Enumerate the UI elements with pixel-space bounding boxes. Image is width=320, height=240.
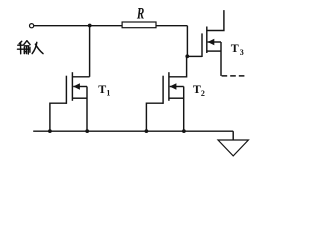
- transistor T2 gate lead: [146, 103, 163, 131]
- transistor T2 source down wire: [183, 87, 185, 132]
- transistor T3 drain lead: [207, 10, 224, 30]
- ground lead down: [232, 131, 234, 140]
- wire gate node to T3 gate: [187, 55, 202, 57]
- transistor T1 source lead: [72, 97, 87, 99]
- node dot T1 gate at rail: [48, 129, 52, 133]
- svg-text:1: 1: [106, 88, 110, 97]
- transistor T2 source lead: [169, 97, 184, 99]
- wire junction down to T1 drain: [89, 26, 91, 77]
- transistor T3 source lead: [207, 50, 221, 52]
- wire resistor to right corner: [156, 25, 187, 27]
- node dot T1 source at rail: [85, 129, 89, 133]
- transistor T3 gate bar: [201, 33, 203, 57]
- transistor T2 gate bar: [162, 76, 164, 104]
- resistor R body: [122, 22, 156, 28]
- node dot T2 source at rail: [182, 129, 186, 133]
- transistor T1 substrate arrow: [73, 83, 80, 89]
- transistor T1 gate bar: [65, 76, 67, 104]
- svg-text:2: 2: [201, 89, 205, 98]
- svg-text:T: T: [193, 82, 201, 96]
- transistor T2 substrate arrow: [170, 83, 177, 89]
- wire down to gate node: [186, 26, 188, 57]
- transistor T2 channel bar: [168, 72, 170, 101]
- input terminal circle: [30, 24, 34, 28]
- transistor T1 source down wire: [86, 87, 88, 132]
- wire input to resistor: [34, 25, 122, 27]
- ground symbol triangle: [218, 140, 248, 156]
- transistor T1 gate lead: [50, 103, 67, 131]
- svg-text:3: 3: [240, 48, 244, 57]
- node junction dot gate node: [185, 54, 189, 58]
- node dot T2 gate at rail: [145, 129, 149, 133]
- transistor T3 channel bar: [206, 27, 208, 54]
- dashed line at T3 source: [222, 75, 247, 77]
- ground rail wire: [33, 130, 233, 132]
- transistor T3 substrate arrow: [208, 39, 215, 45]
- svg-text:T: T: [98, 82, 106, 96]
- svg-text:R: R: [136, 5, 144, 22]
- node junction dot at input line: [88, 24, 92, 28]
- transistor T1 drain lead: [72, 76, 89, 78]
- transistor T1 channel bar: [71, 72, 73, 101]
- label input 输 (drawn glyph): [18, 41, 31, 54]
- transistor T3 source down wire: [220, 42, 222, 76]
- label input 入 (drawn glyph): [32, 42, 43, 53]
- svg-text:T: T: [231, 41, 239, 55]
- transistor T2 drain lead: [169, 56, 187, 76]
